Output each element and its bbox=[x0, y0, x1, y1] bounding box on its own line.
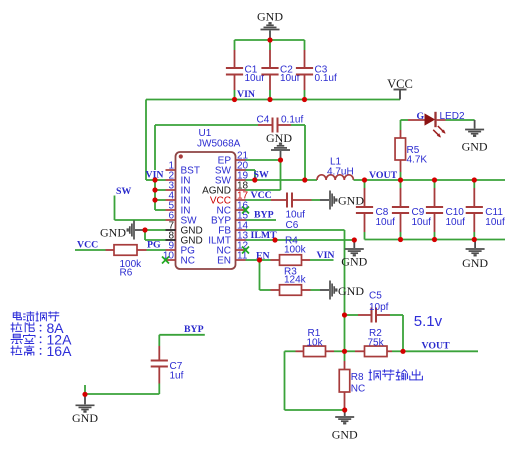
svg-text:GND: GND bbox=[338, 194, 364, 208]
svg-text:VCC: VCC bbox=[387, 77, 413, 91]
svg-text:10pf: 10pf bbox=[369, 302, 389, 313]
svg-text:VCC: VCC bbox=[77, 240, 98, 251]
svg-text:75k: 75k bbox=[368, 338, 385, 349]
svg-text:NC: NC bbox=[351, 384, 365, 395]
svg-text:100k: 100k bbox=[284, 244, 307, 255]
svg-text:R8: R8 bbox=[351, 372, 364, 383]
svg-text:VOUT: VOUT bbox=[422, 341, 451, 352]
svg-text:PG: PG bbox=[147, 240, 161, 251]
svg-text:VOUT: VOUT bbox=[369, 170, 398, 181]
svg-text:16A: 16A bbox=[47, 343, 73, 359]
svg-text:GND: GND bbox=[266, 131, 292, 145]
svg-text:GND: GND bbox=[338, 284, 364, 298]
svg-text:VCC: VCC bbox=[251, 190, 272, 201]
svg-text:GND: GND bbox=[100, 225, 126, 239]
svg-text:LED2: LED2 bbox=[440, 111, 465, 122]
svg-text:5.1v: 5.1v bbox=[414, 313, 443, 330]
svg-text:C4: C4 bbox=[257, 114, 270, 125]
svg-text:GND: GND bbox=[257, 10, 283, 24]
svg-text:G: G bbox=[417, 111, 425, 122]
svg-text:NC: NC bbox=[181, 256, 195, 267]
svg-text:C5: C5 bbox=[369, 291, 382, 302]
svg-text:GND: GND bbox=[462, 139, 488, 153]
svg-text:4.7K: 4.7K bbox=[407, 154, 428, 165]
svg-text:EN: EN bbox=[217, 256, 231, 267]
svg-text:BYP: BYP bbox=[254, 210, 274, 221]
svg-text:124k: 124k bbox=[284, 274, 307, 285]
svg-text:10uf: 10uf bbox=[485, 217, 505, 228]
svg-text:0.1uf: 0.1uf bbox=[281, 114, 303, 125]
svg-text:4.7uH: 4.7uH bbox=[327, 167, 354, 178]
svg-text:10uf: 10uf bbox=[376, 217, 396, 228]
svg-text:GND: GND bbox=[462, 256, 488, 270]
svg-text:10k: 10k bbox=[307, 338, 324, 349]
svg-text:GND: GND bbox=[332, 427, 358, 441]
svg-text:10uf: 10uf bbox=[446, 217, 466, 228]
svg-text:U1: U1 bbox=[199, 128, 212, 139]
svg-text:1uf: 1uf bbox=[170, 370, 184, 381]
svg-text:SW: SW bbox=[116, 186, 131, 197]
svg-text:GND: GND bbox=[72, 411, 98, 425]
svg-text:GND: GND bbox=[341, 255, 367, 269]
svg-text:VIN: VIN bbox=[317, 250, 335, 261]
svg-text:R6: R6 bbox=[120, 268, 133, 279]
svg-text:VIN: VIN bbox=[237, 89, 255, 100]
svg-text:BYP: BYP bbox=[184, 324, 204, 335]
svg-text:10uf: 10uf bbox=[245, 73, 265, 84]
svg-text:10uf: 10uf bbox=[412, 217, 432, 228]
svg-text:JW5068A: JW5068A bbox=[197, 139, 241, 150]
svg-text:0.1uf: 0.1uf bbox=[315, 73, 337, 84]
